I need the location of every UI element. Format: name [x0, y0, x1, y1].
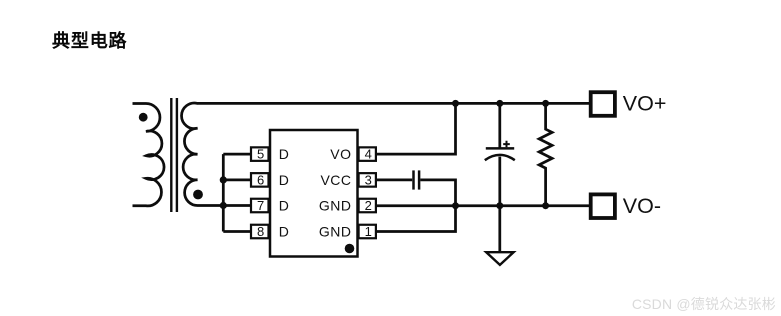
svg-text:7: 7 [257, 198, 264, 213]
transformer core line right [176, 98, 178, 212]
ground stem [498, 206, 501, 252]
terminal box VO+ [591, 92, 615, 116]
op-amp U1 IC body [270, 130, 358, 257]
capacitor C2 curved plate [485, 155, 515, 160]
junction dot bottom rail at R1 [542, 202, 549, 209]
transformer secondary polarity dot [193, 190, 203, 200]
svg-text:5: 5 [257, 147, 264, 162]
svg-text:D: D [279, 223, 289, 239]
capacitor C2 straight plate [486, 147, 514, 150]
transformer primary polarity dot [139, 113, 148, 122]
watermark CSDN [632, 294, 776, 314]
pin box 4 [359, 147, 376, 161]
junction dot top rail at C2 [496, 100, 503, 107]
junction dot bottom rail at C2 [496, 202, 503, 209]
svg-text:D: D [279, 146, 289, 162]
wire left bus vertical [222, 154, 225, 231]
junction dot top rail at pin4 riser [452, 100, 459, 107]
capacitor C2 plus sign [503, 141, 510, 148]
wire bottom rail from pin2 to VO- [377, 204, 590, 207]
svg-text:2: 2 [365, 198, 372, 213]
svg-text:VO-: VO- [623, 194, 661, 218]
capacitor C1 right plate [418, 170, 421, 189]
ground symbol triangle [486, 252, 513, 265]
resistor R1 [539, 103, 552, 205]
wire lead to pin 7 [223, 204, 250, 207]
wire top rail from secondary to VO+ [197, 102, 590, 105]
junction dot bottom rail at gnd bus [452, 202, 459, 209]
IC pin1 indicator dot [345, 244, 355, 254]
svg-text:1: 1 [365, 224, 372, 239]
pin box 6 [251, 173, 269, 187]
junction dot bus pin6 [220, 176, 227, 183]
pin box 1 [359, 225, 376, 239]
svg-text:VCC: VCC [320, 172, 351, 188]
capacitor C1 left plate [412, 170, 415, 189]
title 典型电路 [52, 27, 127, 53]
wire capacitor to gnd bus [376, 180, 456, 232]
svg-text:GND: GND [319, 197, 352, 213]
transformer core line left [170, 98, 172, 212]
svg-text:D: D [279, 172, 289, 188]
wire lead to pin 6 [223, 179, 250, 182]
terminal box VO- [591, 194, 615, 218]
wire lead to pin 8 [223, 230, 250, 233]
svg-text:VO: VO [330, 146, 351, 162]
junction dot bus pin7 [220, 202, 227, 209]
transformer secondary winding [182, 103, 225, 206]
svg-text:D: D [279, 197, 289, 213]
junction dot top rail at R1 [542, 100, 549, 107]
wire pin4 to top rail [376, 103, 456, 154]
pin box 7 [251, 199, 269, 213]
svg-text:6: 6 [257, 173, 264, 188]
pin box 5 [251, 147, 269, 161]
svg-text:VO+: VO+ [623, 92, 667, 116]
pin box 3 [359, 173, 376, 187]
pin box 8 [251, 225, 269, 239]
transformer primary winding [133, 104, 165, 206]
svg-text:GND: GND [319, 223, 352, 239]
svg-text:8: 8 [257, 224, 264, 239]
svg-text:4: 4 [365, 147, 372, 162]
capacitor C2 bottom wire [498, 157, 501, 206]
svg-text:3: 3 [365, 173, 372, 188]
pin box 2 [359, 199, 376, 213]
capacitor C2 top wire [498, 103, 501, 148]
wire pin3 to capacitor [376, 179, 412, 182]
wire lead to pin 5 [223, 153, 250, 156]
